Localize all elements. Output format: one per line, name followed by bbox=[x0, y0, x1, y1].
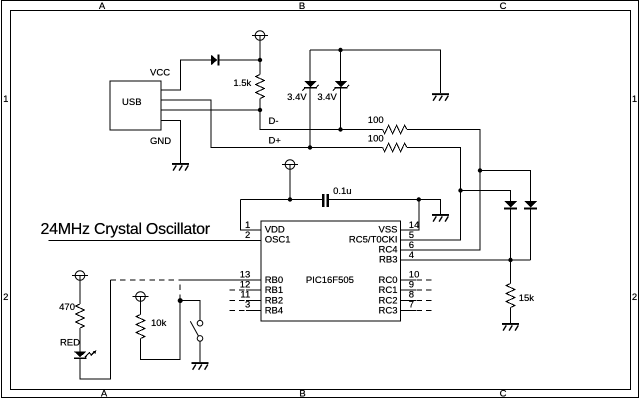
resistor R1 1.5k body bbox=[256, 75, 265, 99]
pin stub RC1 dashed bbox=[417, 289, 432, 291]
wire node D2top branch right bbox=[480, 171, 531, 202]
node VCC junction bbox=[258, 58, 262, 62]
wire supply P2 down to VDD node bbox=[289, 165, 291, 200]
switch S1 bbox=[190, 320, 203, 341]
node D- zener junction bbox=[338, 127, 342, 131]
svg-text:2: 2 bbox=[3, 292, 8, 303]
ground GND4 (switch) bbox=[192, 362, 209, 370]
diode D4 (USB VCC) bbox=[211, 55, 217, 66]
ground GND5 (15k) bbox=[502, 323, 519, 331]
capacitor C1 0.1u plates bbox=[322, 194, 329, 207]
wire R4 bottom to ground bbox=[510, 308, 512, 323]
svg-text:24MHz Crystal Oscillator: 24MHz Crystal Oscillator bbox=[41, 221, 211, 238]
wire R6 bottom loop to switch node bbox=[141, 301, 181, 360]
svg-text:470: 470 bbox=[59, 302, 75, 313]
wire R2 to RC4: right, down, pin6 bbox=[401, 130, 481, 251]
pin stub RC0 pin10 bbox=[401, 279, 416, 281]
svg-text:7: 7 bbox=[409, 300, 414, 311]
node VDD junction bbox=[288, 197, 292, 201]
svg-text:3.4V: 3.4V bbox=[317, 92, 337, 103]
svg-text:RC3: RC3 bbox=[378, 305, 397, 316]
svg-text:1: 1 bbox=[632, 94, 637, 105]
wire node D-src down and D- line bbox=[260, 110, 383, 130]
pin stub RB2 dashed bbox=[230, 299, 247, 301]
svg-text:RB4: RB4 bbox=[265, 305, 283, 316]
resistor R5 470 body bbox=[76, 304, 85, 328]
wire supply P1 to node VCC bbox=[259, 36, 261, 61]
pin stub RC2 dashed bbox=[417, 299, 432, 301]
svg-text:GND: GND bbox=[150, 136, 171, 147]
wire RB0 solid part bbox=[180, 279, 261, 281]
pin stub RB2 pin11 bbox=[246, 299, 261, 301]
svg-text:100: 100 bbox=[368, 133, 384, 144]
wire R5 bottom to LED D3 bbox=[79, 328, 81, 351]
node D-src junction bbox=[258, 108, 262, 112]
LED D3 RED symbol bbox=[74, 351, 87, 357]
zener diode Z1 wire bottom to D+ bbox=[309, 88, 311, 148]
wire USB pin1 to diode anode bbox=[161, 60, 211, 90]
wire supply P3 to resistor R5 470 bbox=[79, 276, 81, 305]
svg-text:10k: 10k bbox=[151, 318, 167, 329]
svg-text:2: 2 bbox=[632, 292, 637, 303]
svg-text:USB: USB bbox=[122, 97, 142, 108]
node RB3 junction bbox=[508, 258, 512, 262]
wire RB0 dashed drop to switch node bbox=[179, 280, 181, 300]
svg-text:D+: D+ bbox=[269, 135, 282, 146]
wire R1 bottom to node D-src bbox=[259, 99, 261, 111]
svg-text:OSC1: OSC1 bbox=[265, 235, 291, 246]
svg-text:D-: D- bbox=[269, 116, 279, 127]
wire VDD drop to PIC pin1 bbox=[240, 200, 261, 231]
svg-text:C: C bbox=[500, 1, 507, 12]
wire OSC1 net (24MHz) bbox=[49, 239, 261, 241]
wire zener top rail bbox=[310, 50, 441, 93]
svg-text:A: A bbox=[101, 389, 108, 400]
svg-text:0.1u: 0.1u bbox=[333, 186, 352, 197]
zener diode Z2 wire bottom to D- bbox=[340, 88, 342, 130]
pin stub RC3 dashed bbox=[417, 309, 432, 311]
ground GND1 (USB) bbox=[172, 163, 189, 171]
node switch junction bbox=[178, 298, 183, 303]
zener diode Z2 wire top bbox=[340, 50, 342, 81]
svg-text:1.5k: 1.5k bbox=[233, 78, 251, 89]
wire switch S1 bottom to ground bbox=[199, 341, 201, 362]
node VSS junction bbox=[417, 197, 421, 201]
connector J1 USB box bbox=[110, 81, 161, 130]
wire VDD line left of capacitor bbox=[240, 199, 322, 201]
pin stub RB1 pin12 bbox=[246, 289, 261, 291]
svg-text:3: 3 bbox=[245, 300, 250, 311]
zener diode Z1 wire top bbox=[309, 50, 311, 81]
svg-text:3.4V: 3.4V bbox=[287, 92, 307, 103]
node rail junction bbox=[338, 48, 342, 52]
svg-text:C: C bbox=[500, 389, 507, 400]
wire USB pin4 to ground bbox=[161, 121, 181, 164]
node D+ zener junction bbox=[308, 145, 312, 149]
pin stub RC0 dashed bbox=[417, 279, 432, 281]
zener Z1 tails bbox=[302, 88, 304, 90]
wire R3 to RC5: right, down, pin5 bbox=[401, 148, 461, 241]
pic U1 PIC16F505 box bbox=[261, 221, 401, 321]
diode D2 symbol bbox=[524, 201, 537, 208]
pin stub RB1 dashed bbox=[230, 289, 247, 291]
wire capacitor right to ground corner bbox=[329, 200, 440, 215]
svg-text:PIC16F505: PIC16F505 bbox=[306, 275, 354, 286]
wire LED D3 bottom loop to RB0 dashed start bbox=[80, 280, 111, 379]
svg-text:A: A bbox=[99, 1, 106, 12]
wire diode cathode to node VCC bbox=[219, 59, 260, 61]
node D- branch junction bbox=[478, 168, 482, 172]
diode D1 symbol bbox=[504, 201, 517, 208]
resistor R4 15k body bbox=[506, 284, 515, 308]
wire USB pin2 to D+ line bbox=[161, 100, 383, 148]
svg-text:RED: RED bbox=[60, 338, 80, 349]
zener diode Z2 symbol 3.4V bbox=[335, 81, 348, 87]
node D+ branch junction bbox=[458, 188, 462, 192]
resistor R3 100 body (D+ line) bbox=[383, 143, 407, 152]
wire VSS drop: node to PIC pin14 bbox=[401, 200, 419, 231]
pin stub RC2 pin8 bbox=[401, 299, 416, 301]
svg-text:B: B bbox=[299, 1, 305, 12]
zener Z2 tails bbox=[333, 88, 335, 90]
resistor R6 10k body bbox=[136, 315, 145, 339]
ground GND2 (zener rail) bbox=[432, 93, 449, 101]
wire switch node to switch S1 bbox=[180, 301, 200, 321]
svg-text:B: B bbox=[299, 389, 305, 400]
supply symbol P1 bbox=[252, 31, 268, 41]
wire RB3 pin4 line bbox=[401, 259, 531, 261]
svg-text:15k: 15k bbox=[519, 293, 535, 304]
svg-text:VCC: VCC bbox=[150, 67, 170, 78]
zener diode Z1 symbol 3.4V bbox=[304, 81, 317, 87]
LED D3 arrow bbox=[85, 352, 95, 358]
supply symbol P3 bbox=[72, 271, 88, 281]
svg-text:2: 2 bbox=[245, 230, 250, 241]
wire USB pin3 to node D-src bbox=[161, 109, 260, 111]
wire node VCC to resistor R1 top bbox=[259, 60, 261, 75]
pin stub RB4 pin3 bbox=[246, 309, 261, 311]
wire node D1top branch right bbox=[461, 191, 511, 202]
wire node RB3 to resistor R4 15k bbox=[510, 260, 512, 284]
supply symbol P4 bbox=[133, 292, 149, 302]
svg-text:RB3: RB3 bbox=[379, 255, 397, 266]
wire supply P4 to resistor R6 10k bbox=[140, 297, 142, 315]
ground GND3 (VSS/cap) bbox=[432, 214, 449, 222]
diode D2 wire bottom bbox=[530, 209, 532, 260]
svg-text:1: 1 bbox=[3, 94, 8, 105]
wire RB0 dashed part bbox=[111, 279, 181, 281]
pin stub RC3 pin7 bbox=[401, 309, 416, 311]
svg-text:4: 4 bbox=[409, 250, 414, 261]
diode D1 wire bottom bbox=[510, 209, 512, 260]
svg-text:100: 100 bbox=[368, 115, 384, 126]
supply symbol P2 bbox=[282, 160, 298, 170]
pin stub RC1 pin9 bbox=[401, 289, 416, 291]
pin stub RB4 dashed bbox=[230, 309, 247, 311]
resistor R2 100 body (D- line) bbox=[383, 125, 407, 134]
